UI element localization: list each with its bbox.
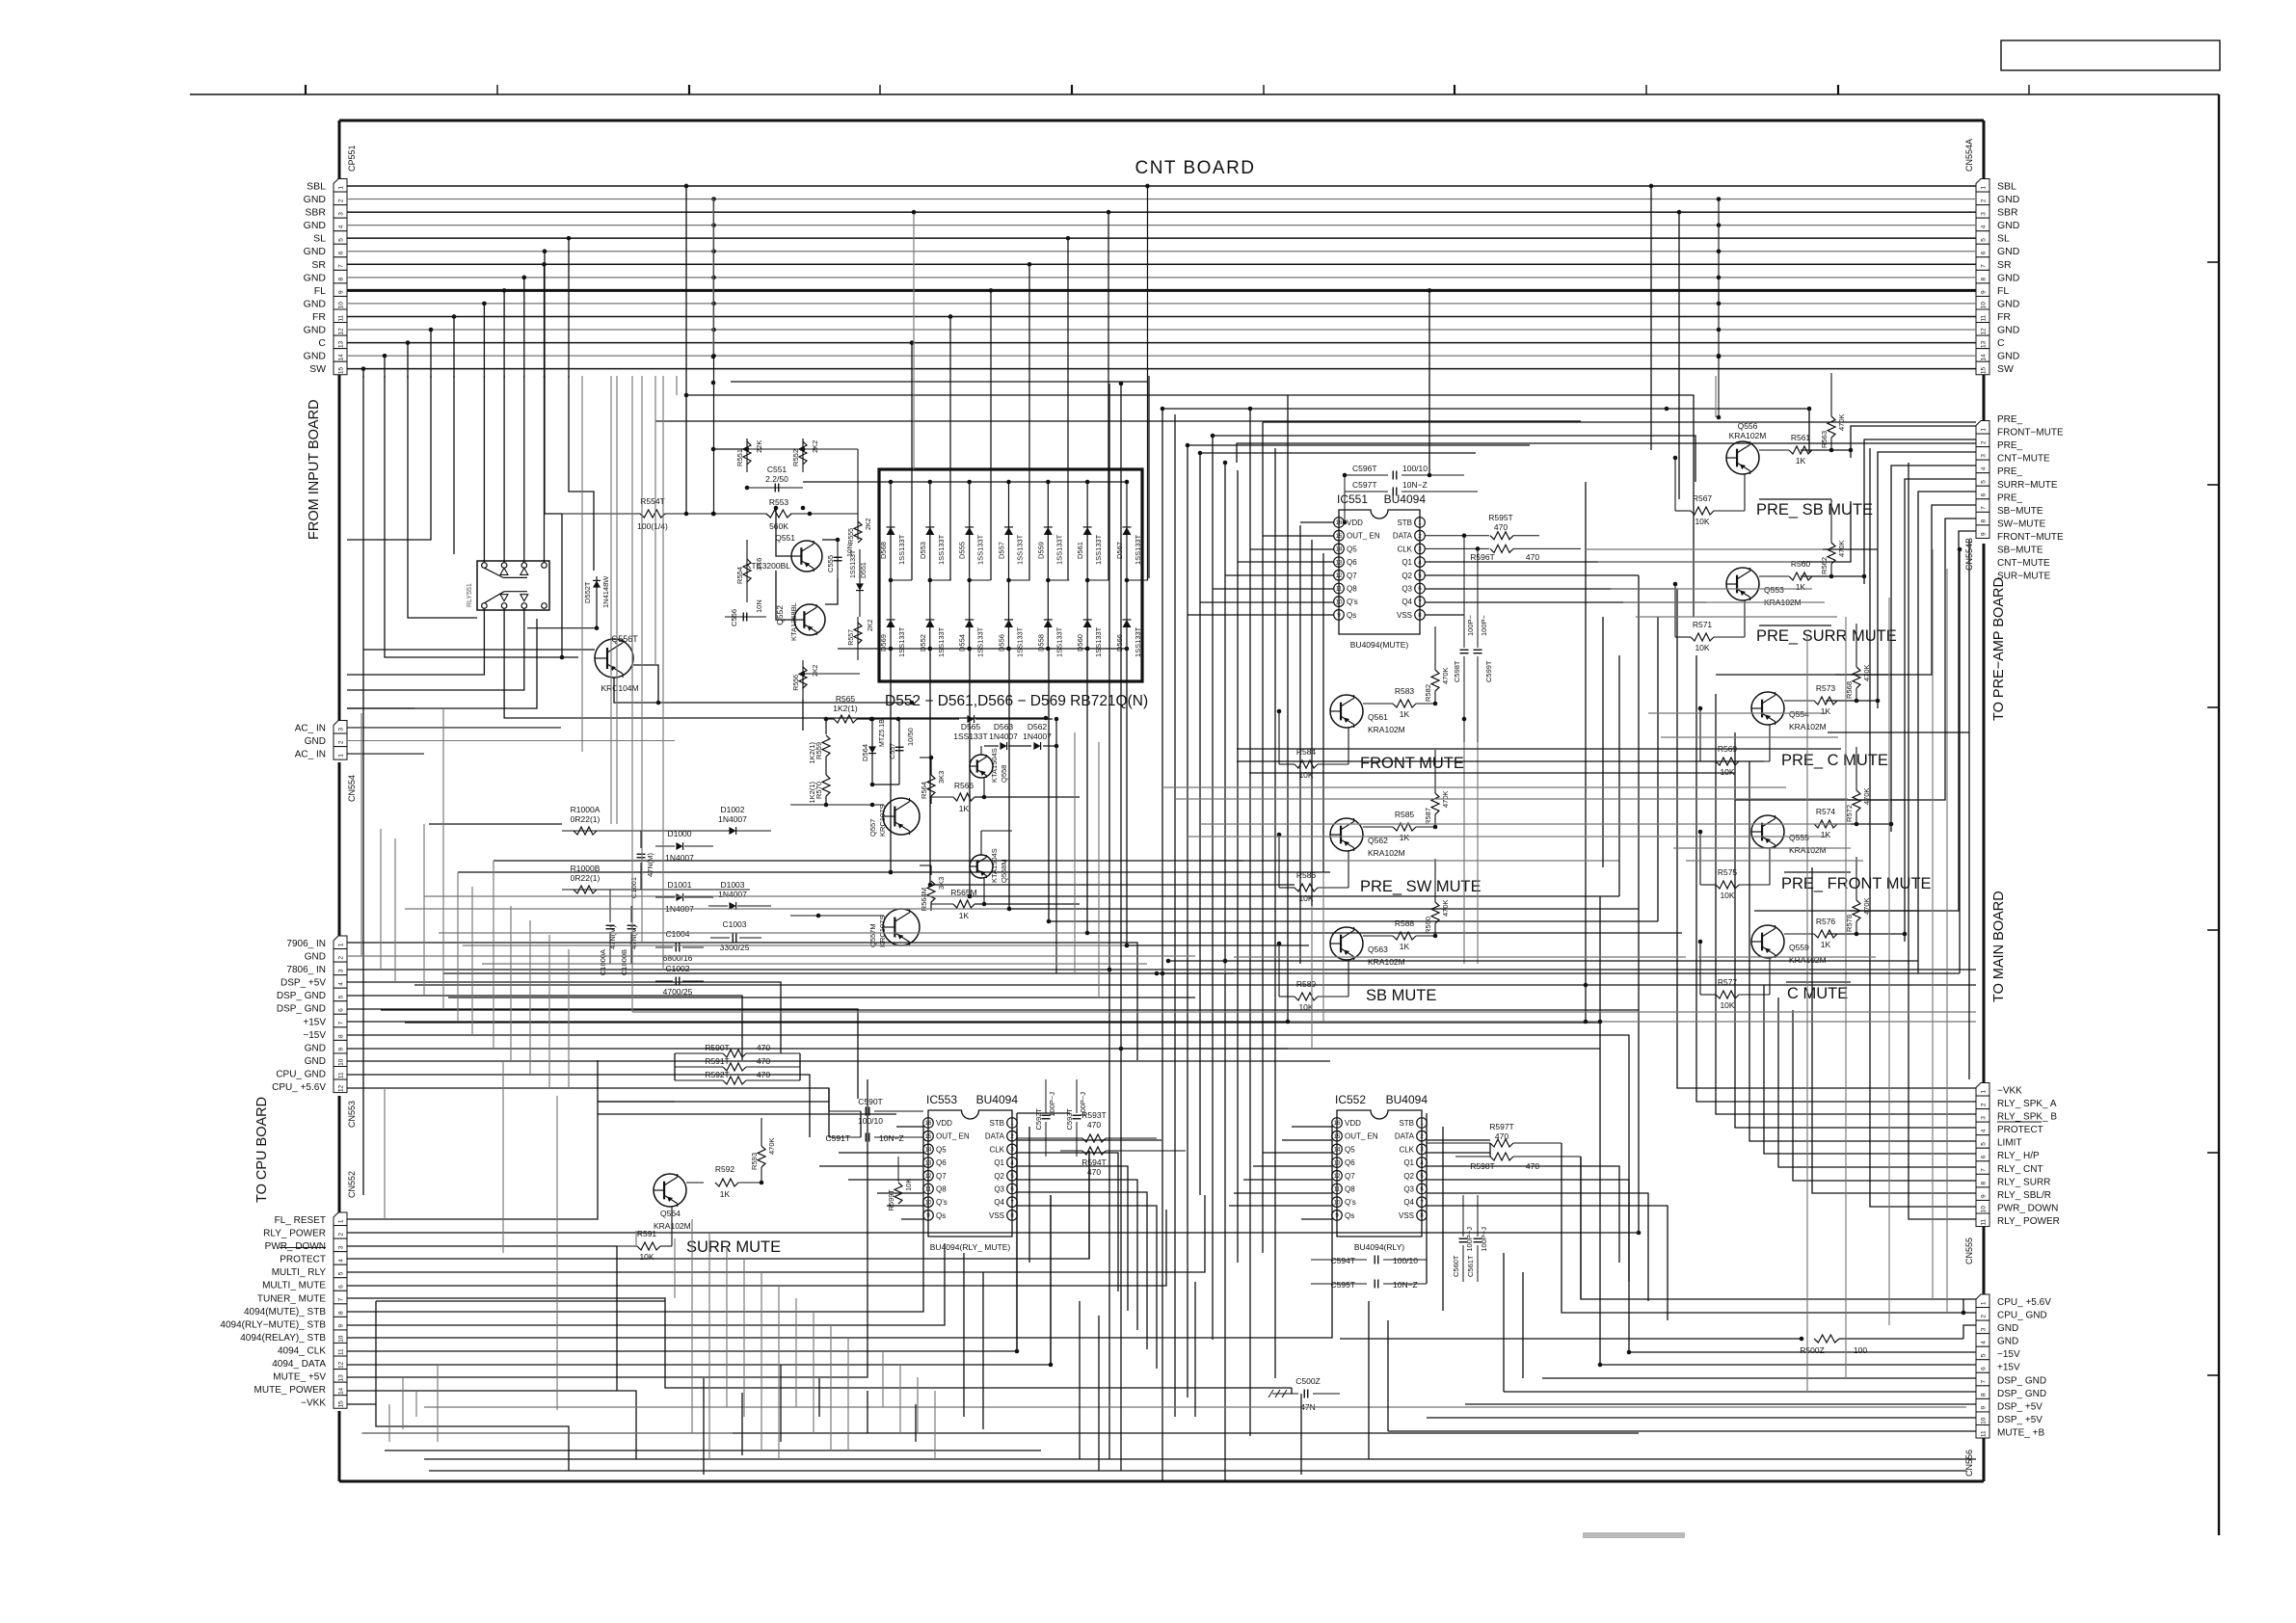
svg-text:FRONT MUTE: FRONT MUTE bbox=[1360, 755, 1464, 772]
wire bbox=[822, 539, 838, 541]
svg-text:FRONT−MUTE: FRONT−MUTE bbox=[1997, 428, 2064, 439]
svg-text:1: 1 bbox=[337, 186, 344, 190]
transistor Q555 KRA102M mute cell bbox=[1751, 815, 1784, 848]
svg-text:TO PRE−AMP BOARD: TO PRE−AMP BOARD bbox=[1991, 577, 2007, 721]
wire bbox=[1864, 439, 1976, 584]
wire bbox=[1017, 1180, 1137, 1330]
transistor Q558M KTA1504S bbox=[970, 855, 993, 878]
svg-text:Q6: Q6 bbox=[1347, 558, 1357, 567]
junction bbox=[808, 512, 813, 517]
svg-text:7: 7 bbox=[337, 1297, 344, 1301]
svg-text:0R22(1): 0R22(1) bbox=[571, 873, 601, 883]
wire bbox=[641, 376, 643, 943]
wire bbox=[1793, 1010, 1976, 1181]
svg-text:BU4094: BU4094 bbox=[976, 1093, 1019, 1106]
wire bbox=[361, 1432, 733, 1434]
svg-text:9: 9 bbox=[1980, 290, 1987, 294]
diode column D561/D560 bbox=[1086, 482, 1088, 649]
svg-text:10: 10 bbox=[1336, 599, 1343, 605]
svg-text:RLY_ SBL/R: RLY_ SBL/R bbox=[1997, 1190, 2051, 1201]
svg-text:2: 2 bbox=[337, 740, 344, 744]
wire bbox=[347, 1210, 1166, 1286]
svg-text:Qs: Qs bbox=[936, 1211, 946, 1220]
wire bbox=[1909, 463, 1976, 1219]
svg-text:BU4094(RLY_ MUTE): BU4094(RLY_ MUTE) bbox=[930, 1242, 1011, 1252]
wire bbox=[360, 713, 362, 956]
svg-text:10N−Z: 10N−Z bbox=[1393, 1280, 1418, 1290]
wire bbox=[877, 1192, 923, 1194]
svg-text:D561: D561 bbox=[1076, 542, 1084, 559]
svg-text:6: 6 bbox=[337, 251, 344, 254]
resistor R593 470K bbox=[758, 1146, 765, 1167]
wire bbox=[1463, 742, 1465, 964]
svg-text:C592T: C592T bbox=[1034, 1108, 1043, 1131]
wire bbox=[408, 376, 477, 618]
junction bbox=[1876, 699, 1881, 704]
svg-text:4: 4 bbox=[337, 982, 344, 986]
svg-text:1: 1 bbox=[1980, 1301, 1987, 1305]
resistor R570 1K2(1) bbox=[825, 757, 827, 775]
wire bbox=[1249, 772, 1735, 774]
svg-text:3: 3 bbox=[337, 1245, 344, 1249]
svg-text:CN555: CN555 bbox=[1964, 1237, 1974, 1264]
wire bbox=[1194, 1282, 1196, 1417]
svg-text:PWR_ DOWN: PWR_ DOWN bbox=[1997, 1203, 2058, 1213]
svg-text:C551: C551 bbox=[767, 465, 788, 474]
capacitor C561T 100P-J bbox=[1477, 1195, 1479, 1237]
wire bbox=[1098, 742, 1100, 998]
wire bbox=[384, 1088, 386, 1219]
wire bbox=[1016, 1113, 1018, 1351]
svg-text:470K: 470K bbox=[1837, 540, 1846, 557]
svg-text:D557: D557 bbox=[997, 542, 1005, 559]
junction bbox=[1161, 407, 1165, 412]
wire bbox=[1120, 384, 1122, 1471]
svg-text:R591: R591 bbox=[637, 1229, 657, 1238]
svg-text:KRA102M: KRA102M bbox=[1729, 431, 1767, 440]
svg-text:1: 1 bbox=[337, 754, 344, 758]
resistor R556 2K2 bbox=[802, 660, 804, 699]
svg-text:8: 8 bbox=[1980, 277, 1987, 280]
svg-text:Q2: Q2 bbox=[994, 1172, 1004, 1181]
svg-text:100/10: 100/10 bbox=[1402, 464, 1428, 473]
svg-text:10: 10 bbox=[337, 1058, 344, 1066]
wire bbox=[635, 1231, 637, 1246]
wire bbox=[453, 376, 455, 554]
wire bbox=[828, 1088, 830, 1137]
wire bbox=[1586, 548, 1823, 550]
svg-text:1SS133T: 1SS133T bbox=[937, 534, 946, 565]
svg-text:D1002: D1002 bbox=[720, 805, 744, 814]
svg-text:C1004: C1004 bbox=[665, 929, 689, 939]
wire bbox=[1581, 1157, 1976, 1299]
wire bbox=[347, 1009, 858, 1099]
wire bbox=[388, 1404, 390, 1442]
junction bbox=[774, 506, 779, 511]
svg-text:1K: 1K bbox=[1821, 940, 1831, 949]
svg-text:1SS133T: 1SS133T bbox=[1015, 626, 1024, 657]
op-amp IC552 BU4094 bbox=[1337, 1110, 1422, 1237]
svg-text:PRE_ SURR MUTE: PRE_ SURR MUTE bbox=[1756, 627, 1897, 645]
wire bbox=[1017, 1206, 1157, 1369]
svg-text:1K: 1K bbox=[1821, 706, 1831, 716]
svg-text:DATA: DATA bbox=[1393, 532, 1413, 541]
junction bbox=[711, 355, 716, 359]
svg-text:R557: R557 bbox=[848, 629, 855, 646]
svg-text:VDD: VDD bbox=[936, 1119, 952, 1128]
svg-text:1K2(1): 1K2(1) bbox=[833, 704, 858, 713]
svg-text:9: 9 bbox=[1980, 1405, 1987, 1409]
wire bbox=[867, 1391, 868, 1433]
wire bbox=[676, 376, 678, 395]
ground bbox=[1268, 1390, 1287, 1397]
svg-text:GND: GND bbox=[1997, 272, 2020, 283]
junction bbox=[684, 512, 689, 517]
junction bbox=[1248, 407, 1253, 412]
svg-text:100P−: 100P− bbox=[1466, 614, 1475, 636]
wire bbox=[1586, 1021, 1976, 1023]
svg-text:6: 6 bbox=[337, 1008, 344, 1012]
svg-text:CP551: CP551 bbox=[347, 145, 357, 172]
svg-text:16: 16 bbox=[1334, 1121, 1341, 1127]
svg-text:PRE_ C MUTE: PRE_ C MUTE bbox=[1781, 752, 1888, 769]
wire bbox=[686, 395, 1694, 617]
svg-text:Q557: Q557 bbox=[868, 819, 877, 837]
svg-text:BU4094: BU4094 bbox=[1386, 1093, 1428, 1106]
capacitor C555 bbox=[837, 540, 839, 578]
svg-text:RLY551: RLY551 bbox=[467, 583, 473, 607]
junction bbox=[1637, 1231, 1642, 1236]
svg-text:AC_ IN: AC_ IN bbox=[295, 723, 326, 733]
wire bbox=[1213, 588, 1334, 590]
wire bbox=[963, 1253, 965, 1417]
svg-text:C MUTE: C MUTE bbox=[1787, 985, 1848, 1002]
svg-text:KRA102M: KRA102M bbox=[1368, 725, 1405, 734]
wire bbox=[439, 932, 1087, 934]
wire bbox=[363, 649, 595, 651]
svg-text:2: 2 bbox=[1980, 1103, 1987, 1106]
wire bbox=[1168, 960, 1918, 962]
resistor R564M 3K3 bbox=[930, 865, 932, 875]
svg-text:GND: GND bbox=[304, 272, 327, 283]
svg-text:DSP_ GND: DSP_ GND bbox=[1997, 1375, 2046, 1386]
wire bbox=[1542, 1377, 1976, 1379]
wire bbox=[1162, 786, 1786, 788]
junction bbox=[910, 701, 915, 705]
svg-text:9: 9 bbox=[337, 1323, 344, 1327]
svg-text:C599T: C599T bbox=[1484, 660, 1493, 682]
capacitor C556 bbox=[725, 616, 766, 618]
resistor R598T 470 bbox=[1490, 1153, 1513, 1160]
svg-text:1K: 1K bbox=[1796, 582, 1806, 592]
wire bbox=[1638, 575, 1640, 1233]
junction bbox=[1044, 716, 1049, 721]
junction bbox=[968, 894, 973, 899]
wire bbox=[780, 1365, 782, 1442]
relay RLY551 bbox=[477, 561, 549, 610]
junction bbox=[1198, 451, 1203, 456]
resistor R555 2K2 bbox=[857, 509, 859, 540]
svg-text:CNT BOARD: CNT BOARD bbox=[1135, 158, 1255, 178]
svg-text:R589: R589 bbox=[1296, 979, 1317, 989]
svg-text:GND: GND bbox=[304, 298, 327, 309]
svg-text:GND: GND bbox=[1997, 194, 2020, 205]
svg-text:VSS: VSS bbox=[989, 1211, 1004, 1220]
svg-text:10K: 10K bbox=[1720, 1000, 1734, 1010]
svg-text:DSP_ +5V: DSP_ +5V bbox=[280, 978, 326, 989]
svg-text:3K3: 3K3 bbox=[937, 877, 946, 890]
wire bbox=[1050, 1195, 1052, 1365]
svg-text:4: 4 bbox=[337, 225, 344, 228]
svg-text:PRE_ SB MUTE: PRE_ SB MUTE bbox=[1756, 501, 1873, 519]
svg-text:R560: R560 bbox=[1791, 559, 1811, 569]
wire bbox=[1427, 1206, 1668, 1320]
wire bbox=[674, 1053, 676, 1080]
wire bbox=[1224, 463, 1226, 1481]
svg-text:FR: FR bbox=[312, 311, 326, 323]
wire bbox=[548, 935, 550, 1088]
wire bbox=[457, 872, 459, 1022]
junction bbox=[1800, 1337, 1804, 1342]
svg-text:SW−MUTE: SW−MUTE bbox=[1997, 519, 2046, 529]
main border left segments bbox=[338, 120, 341, 180]
svg-text:PROTECT: PROTECT bbox=[280, 1255, 326, 1265]
svg-text:11: 11 bbox=[337, 1072, 344, 1078]
svg-text:CLK: CLK bbox=[1397, 545, 1412, 553]
wire bbox=[662, 376, 664, 970]
wire bbox=[1340, 1338, 1802, 1340]
CNT BOARD main border top bbox=[339, 120, 1984, 122]
svg-text:10: 10 bbox=[1980, 1417, 1987, 1424]
junction bbox=[1085, 931, 1090, 936]
wire bbox=[614, 678, 912, 703]
resistor R553 560K bbox=[766, 510, 791, 518]
resistor R594T 470 bbox=[1082, 1147, 1106, 1155]
svg-text:TO CPU BOARD: TO CPU BOARD bbox=[254, 1097, 270, 1203]
svg-text:14: 14 bbox=[925, 1148, 932, 1154]
svg-text:Q5: Q5 bbox=[936, 1145, 947, 1154]
junction bbox=[1962, 1311, 1966, 1316]
svg-text:7: 7 bbox=[1980, 1168, 1987, 1172]
svg-text:11: 11 bbox=[1980, 315, 1987, 322]
wire bbox=[1425, 501, 1851, 562]
wire bbox=[597, 1060, 599, 1137]
op-amp IC553 BU4094 bbox=[928, 1110, 1012, 1237]
svg-text:Q5: Q5 bbox=[1345, 1145, 1355, 1154]
svg-text:DSP_ +5V: DSP_ +5V bbox=[1997, 1415, 2042, 1425]
diode matrix bottom rail bbox=[838, 648, 1127, 650]
wire bbox=[394, 838, 396, 982]
wire bbox=[1562, 1143, 1976, 1313]
svg-text:Q555: Q555 bbox=[1789, 833, 1809, 842]
svg-text:KRA102M: KRA102M bbox=[1368, 848, 1405, 858]
svg-text:GND: GND bbox=[1997, 246, 2020, 257]
svg-text:Q563: Q563 bbox=[1368, 945, 1388, 954]
wire bbox=[347, 982, 781, 1053]
svg-text:1N4007: 1N4007 bbox=[718, 814, 747, 824]
junction bbox=[711, 381, 716, 386]
junction bbox=[1286, 1020, 1291, 1024]
wire bbox=[825, 578, 838, 604]
svg-text:4094_ DATA: 4094_ DATA bbox=[272, 1359, 326, 1370]
svg-text:RLY_ SPK_ A: RLY_ SPK_ A bbox=[1997, 1099, 2057, 1109]
svg-text:12: 12 bbox=[1334, 1174, 1341, 1180]
svg-text:1SS133T: 1SS133T bbox=[953, 732, 987, 741]
junction bbox=[1211, 434, 1215, 439]
wire bbox=[1427, 1139, 1490, 1141]
op-amp IC551 BU4094 bbox=[1339, 510, 1420, 634]
svg-text:6800/16: 6800/16 bbox=[663, 953, 693, 963]
svg-text:14: 14 bbox=[337, 1387, 344, 1395]
wire bbox=[1243, 1179, 1332, 1181]
svg-text:470: 470 bbox=[1526, 552, 1539, 562]
svg-text:R555: R555 bbox=[848, 528, 855, 545]
wire bbox=[347, 1129, 1017, 1351]
wire bbox=[1465, 1403, 1976, 1405]
wire bbox=[1427, 1166, 1619, 1263]
wire bbox=[1017, 1153, 1118, 1291]
svg-text:16: 16 bbox=[1336, 520, 1343, 526]
svg-text:Q2: Q2 bbox=[1402, 572, 1412, 580]
title box top right bbox=[2001, 40, 2220, 70]
resistor R551 22K bbox=[746, 439, 748, 472]
wires Q551 cluster bbox=[747, 448, 858, 450]
wire bbox=[1828, 732, 1969, 733]
wire bbox=[1234, 956, 1686, 958]
junction bbox=[656, 701, 661, 705]
wire bbox=[1425, 614, 1464, 616]
svg-text:PROTECT: PROTECT bbox=[1997, 1125, 2043, 1135]
wire bbox=[1282, 1139, 1332, 1141]
svg-text:MUTE_ +B: MUTE_ +B bbox=[1997, 1427, 2045, 1438]
svg-text:R599T: R599T bbox=[887, 1189, 895, 1211]
wire bbox=[545, 376, 562, 514]
junction bbox=[1049, 1363, 1054, 1368]
wire bbox=[493, 861, 494, 1049]
svg-text:6: 6 bbox=[1980, 492, 1987, 496]
wire bbox=[1427, 1193, 1648, 1301]
wire bbox=[523, 376, 525, 563]
wire bbox=[405, 908, 1009, 910]
svg-text:SB MUTE: SB MUTE bbox=[1366, 987, 1436, 1004]
svg-text:MTZ5.1B: MTZ5.1B bbox=[879, 719, 886, 747]
wire bbox=[1905, 479, 1976, 942]
svg-text:D566: D566 bbox=[1115, 634, 1124, 652]
wire bbox=[424, 1406, 1966, 1408]
svg-text:470: 470 bbox=[1087, 1120, 1101, 1130]
wire bbox=[1801, 449, 1851, 451]
wire bbox=[1237, 443, 1976, 463]
wire bbox=[385, 376, 562, 657]
svg-text:KTA1504S: KTA1504S bbox=[990, 748, 999, 783]
svg-text:R573: R573 bbox=[1816, 683, 1836, 693]
junction bbox=[711, 512, 716, 517]
svg-text:FROM INPUT BOARD: FROM INPUT BOARD bbox=[307, 399, 322, 540]
junction bbox=[1584, 1020, 1589, 1024]
svg-text:Q's: Q's bbox=[1345, 1198, 1356, 1207]
svg-text:15: 15 bbox=[1980, 366, 1987, 374]
wire bbox=[1224, 964, 1226, 973]
svg-text:100P−J: 100P−J bbox=[1480, 1227, 1488, 1252]
svg-text:FL_ RESET: FL_ RESET bbox=[275, 1215, 326, 1226]
svg-text:DSP_ GND: DSP_ GND bbox=[277, 1004, 326, 1015]
wire bbox=[347, 1391, 636, 1459]
wire bbox=[1299, 525, 1301, 964]
svg-text:OUT_ EN: OUT_ EN bbox=[1347, 532, 1380, 541]
wire bbox=[899, 1365, 901, 1433]
wire bbox=[1716, 694, 1976, 1114]
svg-text:D552 − D561,D566 − D569 RB721Q: D552 − D561,D566 − D569 RB721Q(N) bbox=[885, 693, 1148, 709]
wire bbox=[581, 376, 583, 752]
svg-text:GND: GND bbox=[305, 736, 326, 747]
wire bbox=[1200, 860, 1300, 862]
svg-text:1SS133T: 1SS133T bbox=[937, 626, 946, 657]
connector CN556 bbox=[1976, 1294, 1989, 1308]
svg-text:1N4007: 1N4007 bbox=[718, 890, 747, 899]
svg-text:1K2(1): 1K2(1) bbox=[808, 742, 816, 764]
wire bbox=[1249, 409, 1251, 1436]
diode column D557/D556 bbox=[1007, 482, 1009, 649]
wire bbox=[1087, 649, 1682, 933]
svg-text:SR: SR bbox=[1997, 259, 2012, 271]
wire bbox=[568, 949, 570, 1088]
svg-text:1K2(1): 1K2(1) bbox=[808, 782, 816, 804]
svg-text:9: 9 bbox=[337, 290, 344, 294]
svg-text:Q2: Q2 bbox=[1403, 1172, 1414, 1181]
svg-text:CPU_ GND: CPU_ GND bbox=[276, 1069, 326, 1079]
wire bbox=[674, 1238, 676, 1298]
svg-text:CNT−MUTE: CNT−MUTE bbox=[1997, 454, 2050, 465]
svg-text:TO MAIN BOARD: TO MAIN BOARD bbox=[1991, 891, 2007, 1002]
svg-text:LIMIT: LIMIT bbox=[1997, 1138, 2022, 1149]
wire bbox=[1300, 860, 1619, 862]
svg-text:R575: R575 bbox=[1718, 867, 1738, 877]
svg-text:FRONT−MUTE: FRONT−MUTE bbox=[1997, 532, 2064, 543]
svg-text:CN556: CN556 bbox=[1964, 1450, 1974, 1477]
svg-text:KRA102M: KRA102M bbox=[1368, 957, 1405, 967]
svg-text:15: 15 bbox=[1334, 1134, 1341, 1140]
svg-text:Q4: Q4 bbox=[1402, 598, 1412, 606]
wire bbox=[1870, 448, 1976, 1207]
svg-text:FR: FR bbox=[1997, 311, 2011, 323]
svg-text:8: 8 bbox=[337, 1311, 344, 1315]
svg-text:SBR: SBR bbox=[1997, 207, 2018, 219]
svg-text:R574: R574 bbox=[1816, 807, 1836, 816]
svg-text:R563: R563 bbox=[1820, 431, 1829, 448]
wire bbox=[1648, 712, 1826, 714]
svg-text:BU4094(MUTE): BU4094(MUTE) bbox=[1350, 640, 1409, 650]
svg-text:D558: D558 bbox=[1036, 634, 1045, 652]
svg-text:100: 100 bbox=[1854, 1345, 1867, 1355]
wire bbox=[1311, 540, 1313, 906]
svg-text:1K: 1K bbox=[1400, 942, 1410, 951]
wire bbox=[502, 1061, 504, 1253]
svg-text:Q7: Q7 bbox=[1347, 572, 1357, 580]
wire bbox=[1932, 549, 1934, 1299]
wire bbox=[1079, 1301, 1081, 1459]
svg-text:Q561: Q561 bbox=[1368, 712, 1388, 722]
wire bbox=[1754, 531, 1976, 911]
svg-text:GND: GND bbox=[304, 220, 327, 231]
svg-text:1K: 1K bbox=[1400, 833, 1410, 842]
diode column D568/D569 bbox=[890, 482, 892, 649]
svg-text:FL: FL bbox=[1997, 285, 2009, 297]
wire bbox=[424, 1458, 1976, 1460]
svg-text:4: 4 bbox=[1980, 1341, 1987, 1344]
wire bbox=[1580, 1157, 1582, 1299]
svg-text:10K: 10K bbox=[1720, 891, 1734, 900]
resistor R554T bbox=[562, 513, 640, 515]
